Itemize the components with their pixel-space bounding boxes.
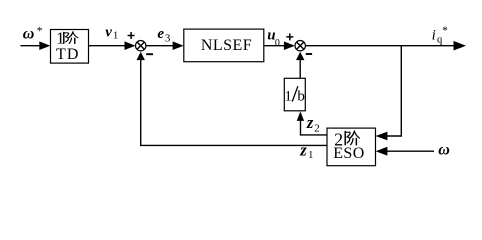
arrowhead into NLSEF <box>173 41 184 50</box>
wire omega to ESO <box>387 150 434 152</box>
svg-text:NLSEF: NLSEF <box>201 37 252 54</box>
svg-text:e: e <box>157 26 164 42</box>
block ESO (2阶 ESO) <box>327 128 376 166</box>
svg-text:1: 1 <box>284 88 292 104</box>
block NLSEF <box>184 29 264 62</box>
svg-text:ω: ω <box>23 26 35 43</box>
svg-text:b: b <box>297 88 305 104</box>
wire omega* to TD <box>20 45 40 47</box>
svg-text:2: 2 <box>314 123 320 135</box>
wire S1 to NLSEF <box>146 45 174 47</box>
arrowhead into S1 bottom <box>137 52 145 60</box>
wire NLSEF to summing junction S2 <box>264 45 285 47</box>
svg-text:z: z <box>306 113 314 132</box>
wire z2: ESO left to 1/b <box>301 120 328 135</box>
svg-text:ESO: ESO <box>333 145 365 162</box>
svg-text:1: 1 <box>113 31 118 42</box>
wire S2 to output iq* <box>305 45 454 47</box>
arrowhead into S2 <box>284 41 295 50</box>
arrowhead into ESO right top <box>376 132 388 141</box>
block TD (1阶 TD) <box>51 30 89 64</box>
wire 1/b to S2 <box>299 60 301 78</box>
svg-text:*: * <box>442 25 448 37</box>
minus sign at S1 <box>146 53 153 55</box>
wire branch from output down to ESO <box>387 46 401 136</box>
arrowhead output <box>454 41 467 51</box>
wire z1: ESO left to S1 bottom <box>141 60 327 145</box>
svg-text:3: 3 <box>165 32 171 44</box>
arrowhead into TD <box>39 41 50 50</box>
svg-text:0: 0 <box>275 38 280 49</box>
summing junction S1 <box>136 41 146 51</box>
minus sign at S2 <box>306 53 312 55</box>
block 1/b <box>284 78 305 111</box>
svg-text:v: v <box>105 25 112 41</box>
svg-text:1: 1 <box>308 150 313 161</box>
plus sign at S1 <box>128 32 135 39</box>
arrowhead into S2 bottom <box>296 52 304 60</box>
arrowhead into S1 <box>125 41 136 50</box>
svg-text:TD: TD <box>56 46 80 63</box>
svg-text:i: i <box>432 27 436 43</box>
arrowhead into 1/b bottom <box>297 111 304 121</box>
summing junction S2 <box>295 41 305 51</box>
wire TD to summing junction S1 <box>89 45 126 47</box>
svg-text:*: * <box>37 26 43 38</box>
arrowhead into ESO right bottom <box>376 147 388 156</box>
svg-text:z: z <box>299 141 307 160</box>
plus sign at S2 <box>286 33 293 40</box>
svg-text:ω: ω <box>438 142 450 159</box>
